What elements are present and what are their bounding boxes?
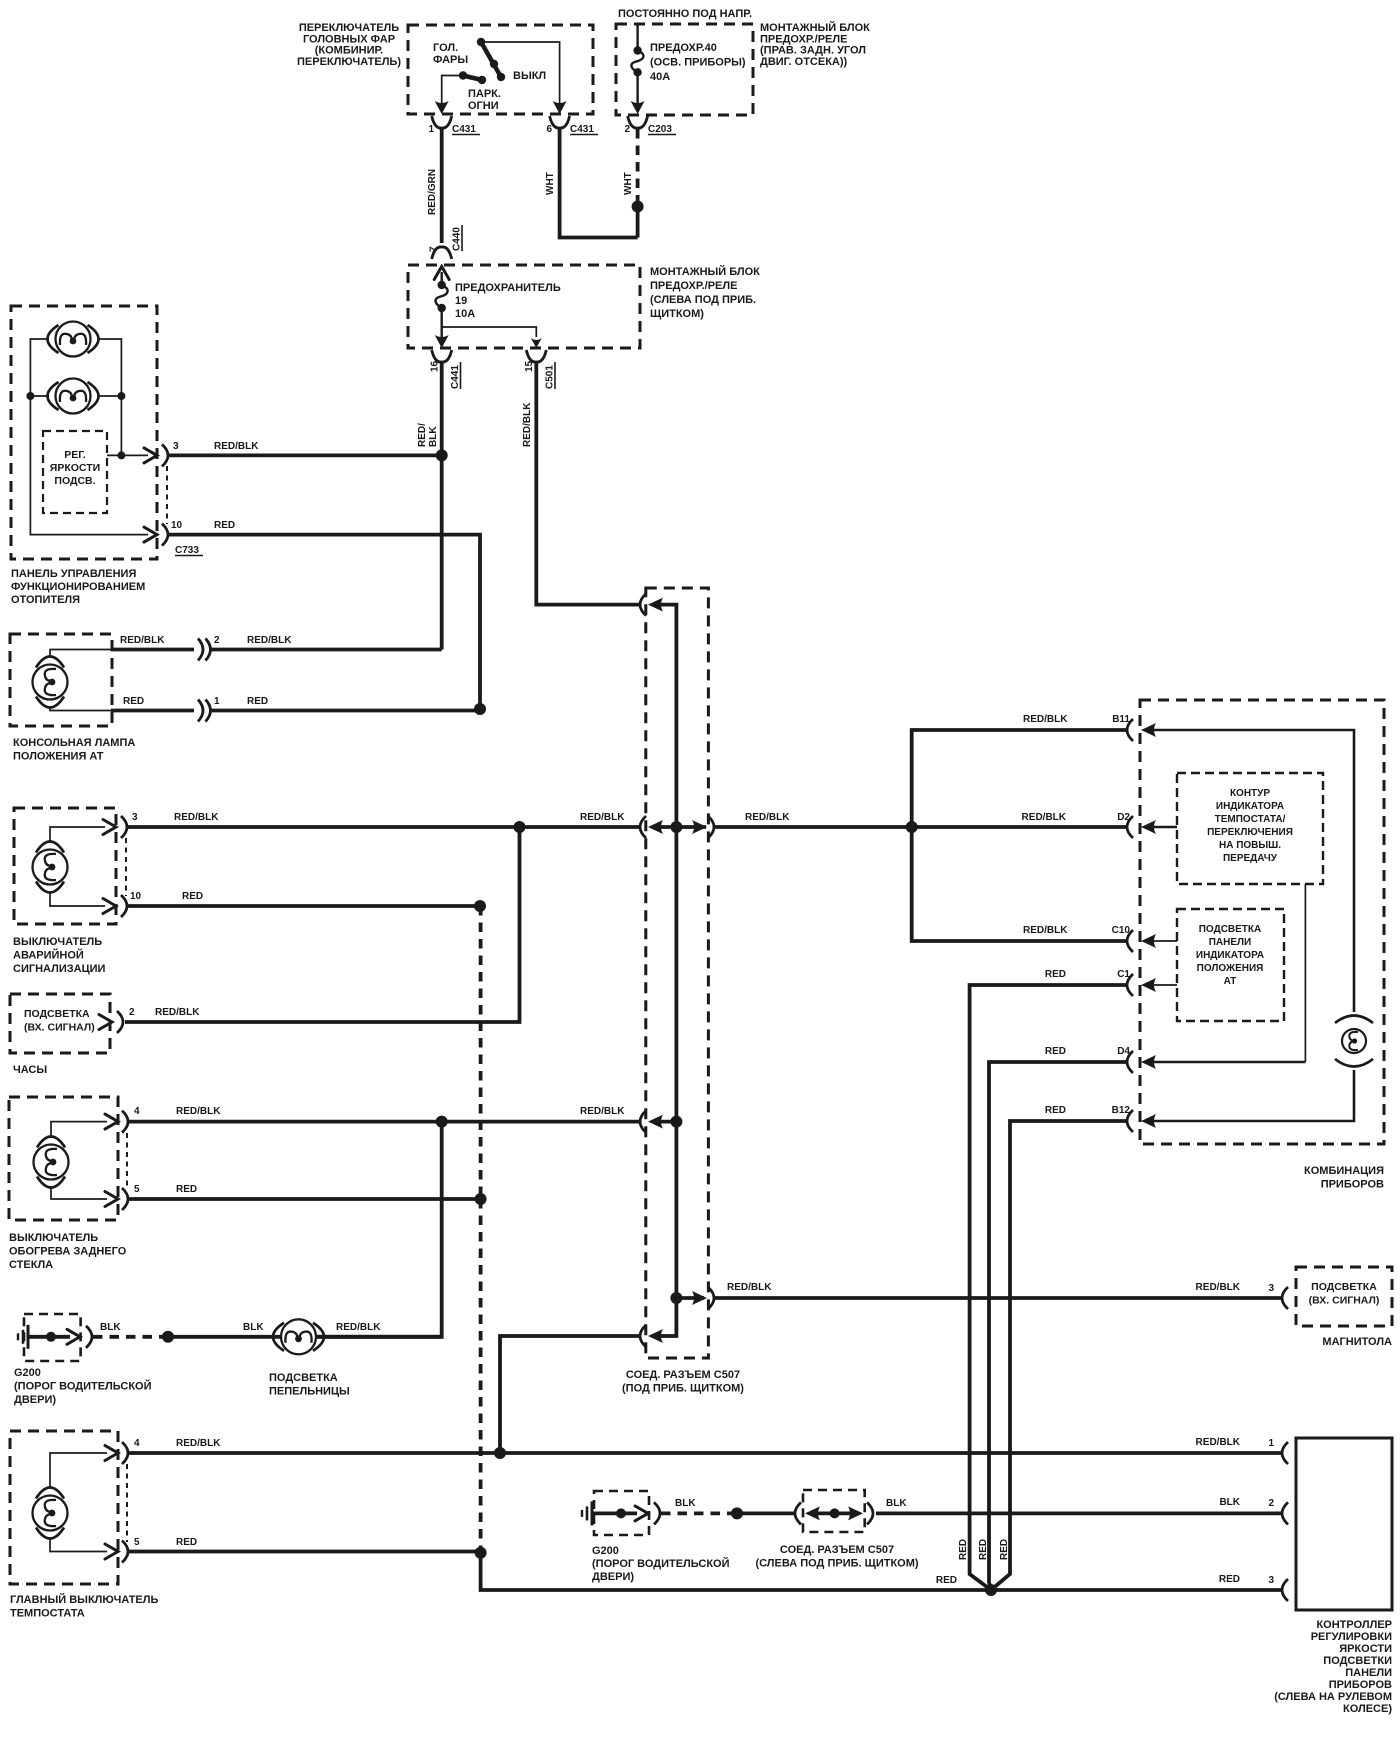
svg-text:СОЕД. РАЗЪЕМ С507: СОЕД. РАЗЪЕМ С507 [780,1544,894,1556]
hazard pin 10 connector [121,895,127,917]
svg-text:RED/BLK: RED/BLK [174,812,219,823]
heater panel illumination lamp 1 [48,322,99,357]
hazard switch internal wiring [50,827,105,842]
svg-text:BLK: BLK [886,1498,907,1509]
svg-text:ФАРЫ: ФАРЫ [433,54,468,66]
wire RED/BLK defogger pin 4 to C507 [129,1120,641,1124]
svg-text:40А: 40А [650,71,670,83]
svg-text:ГОЛОВНЫХ ФАР: ГОЛОВНЫХ ФАР [303,33,395,45]
tempostat pin 5 connector [122,1541,128,1563]
svg-text:RED/BLK: RED/BLK [1023,714,1068,725]
svg-text:(ПРАВ. ЗАДН. УГОЛ: (ПРАВ. ЗАДН. УГОЛ [760,45,866,57]
svg-text:4: 4 [134,1438,140,1449]
wire BLK dashed to splice (bottom) [661,1512,734,1516]
wire BLK splice to C507 bottom connector [737,1512,795,1516]
svg-text:RED: RED [247,696,268,707]
cluster internal wire C10 to AT panel light box [1150,940,1177,942]
G200 left exit connector [86,1326,92,1348]
svg-text:КОЛЕСЕ): КОЛЕСЕ) [1343,1703,1392,1715]
svg-text:1: 1 [428,124,434,135]
heater pin 10 connector [144,527,157,542]
wire RED/BLK hazard pin 3 to cluster D2 (main RED/BLK net) [127,825,641,829]
svg-text:(ВХ. СИГНАЛ): (ВХ. СИГНАЛ) [24,1022,95,1034]
joint connector C507 box (under instrument panel) [646,588,709,1358]
svg-text:ПРИБОРОВ: ПРИБОРОВ [1321,1179,1384,1191]
svg-text:ДВИГ. ОТСЕКА)): ДВИГ. ОТСЕКА)) [760,56,848,68]
console AT-position lamp box [10,634,112,726]
svg-text:(СЛЕВА НА РУЛЕВОМ: (СЛЕВА НА РУЛЕВОМ [1274,1691,1392,1703]
wire: fuse branch to pin 15 [442,327,537,337]
wire WHT from pin 6 C431 [560,129,638,238]
svg-text:ДВЕРИ): ДВЕРИ) [14,1394,56,1406]
wire RED/BLK from C501-15 to C507 top [536,363,640,605]
console AT-position lamp [33,657,68,708]
wire RED to C1 [970,985,1127,1590]
svg-text:RED: RED [1045,1046,1066,1057]
svg-text:МОНТАЖНЫЙ БЛОК: МОНТАЖНЫЙ БЛОК [760,21,870,34]
svg-text:RED/BLK: RED/BLK [336,1322,381,1333]
clock illumination box (ПОДСВЕТКА ВХ. СИГНАЛ) [10,994,110,1053]
svg-text:RED/BLK: RED/BLK [1196,1437,1241,1448]
splice dot BLK bottom [731,1507,743,1519]
svg-text:RED/BLK: RED/BLK [1196,1282,1241,1293]
svg-text:WHT: WHT [623,172,634,195]
svg-text:ПОДСВЕТКА: ПОДСВЕТКА [1311,1281,1377,1293]
splice dot WHT [632,201,644,213]
svg-text:(ВХ. СИГНАЛ): (ВХ. СИГНАЛ) [1309,1295,1380,1307]
svg-text:C203: C203 [648,124,672,135]
svg-text:RED/BLK: RED/BLK [176,1438,221,1449]
C507 magnitola exit connector [676,1296,704,1300]
inline connector pin 1 (console) [198,700,203,722]
svg-text:16: 16 [430,360,441,372]
svg-text:ПОСТОЯННО ПОД НАПР.: ПОСТОЯННО ПОД НАПР. [618,8,752,20]
svg-text:1: 1 [1268,1438,1274,1449]
AT position indicator panel light box [1177,909,1284,1021]
wire RED/BLK clock to hazard net [125,827,520,1022]
svg-text:КОНТРОЛЛЕР: КОНТРОЛЛЕР [1316,1619,1392,1631]
svg-text:ПАРК.: ПАРК. [468,88,501,100]
svg-text:ПЕРЕКЛЮЧЕНИЯ: ПЕРЕКЛЮЧЕНИЯ [1207,827,1293,838]
wire RED defogger pin 5 to RED distribution [129,1197,478,1201]
fuse ПРЕДОХР.40 (ОСВ. ПРИБОРЫ) 40А [636,24,638,47]
svg-text:2: 2 [624,124,630,135]
svg-text:(КОМБИНИР.: (КОМБИНИР. [315,45,384,57]
junction dot heater pin3 / C441 wire [436,449,448,461]
headlight switch wiper blade [481,42,501,77]
radio illumination box (ПОДСВЕТКА ВХ. СИГНАЛ) [1296,1267,1392,1326]
svg-text:RED/BLK: RED/BLK [727,1282,772,1293]
junction dot C507 at hazard line [670,821,682,833]
svg-text:RED/BLK: RED/BLK [1023,925,1068,936]
svg-text:5: 5 [134,1537,140,1548]
controller box (brightness controller) [1296,1438,1392,1610]
svg-text:(СЛЕВА ПОД ПРИБ. ЩИТКОМ): (СЛЕВА ПОД ПРИБ. ЩИТКОМ) [755,1558,918,1570]
wire RED/BLK ashtray lamp to corner [316,1335,442,1339]
svg-text:СТЕКЛА: СТЕКЛА [9,1259,53,1271]
defogger pin 4 connector [122,1111,128,1133]
svg-text:(ОСВ. ПРИБОРЫ): (ОСВ. ПРИБОРЫ) [650,57,746,69]
svg-text:ВЫКЛЮЧАТЕЛЬ: ВЫКЛЮЧАТЕЛЬ [9,1232,98,1244]
heater control panel box [11,306,157,559]
wire RED heater pin 10 to distribution [168,535,480,709]
svg-text:15: 15 [524,360,535,372]
svg-text:ПАНЕЛЬ УПРАВЛЕНИЯ: ПАНЕЛЬ УПРАВЛЕНИЯ [11,568,136,580]
cluster internal wire D4 to indicator box [1150,1061,1305,1064]
svg-text:2: 2 [1268,1498,1274,1509]
svg-text:ПЕРЕДАЧУ: ПЕРЕДАЧУ [1223,853,1278,864]
svg-text:ВЫКЛЮЧАТЕЛЬ: ВЫКЛЮЧАТЕЛЬ [13,936,102,948]
junction dot defogger RED [475,1193,487,1205]
svg-text:ИНДИКАТОРА: ИНДИКАТОРА [1216,801,1284,812]
ground G200 (driver door sill) left [27,1325,30,1349]
svg-text:РЕГУЛИРОВКИ: РЕГУЛИРОВКИ [1311,1631,1392,1643]
svg-text:G200: G200 [14,1367,41,1379]
tempostat pin 4 connector [122,1442,128,1464]
wire RED distribution (dashed) from hazard junction to temp junction [479,906,483,1199]
wire RED to B12 [991,1121,1127,1590]
svg-text:RED: RED [936,1575,957,1586]
joint connector C507 box (left under instrument panel) [795,1502,801,1524]
junction dot RED merge [985,1584,997,1596]
wire RED/BLK from C441-16 down to console corner [440,363,444,650]
svg-text:ПОДСВЕТКА: ПОДСВЕТКА [269,1372,338,1384]
C507 defogger entry connector [640,1111,646,1133]
junction dot C507 at defogger entry [670,1116,682,1128]
cluster internal wire D2 to thermostat indicator box [1150,826,1177,829]
console lamp internal wiring [50,650,111,658]
heater pin 3 connector [162,444,168,466]
svg-text:RED: RED [978,1539,989,1560]
svg-text:RED: RED [214,520,235,531]
svg-text:ПЕРЕКЛЮЧАТЕЛЬ: ПЕРЕКЛЮЧАТЕЛЬ [299,22,399,34]
svg-text:10А: 10А [455,308,475,320]
svg-text:4: 4 [134,1106,140,1117]
wire BLK splice to ashtray lamp [168,1335,281,1339]
svg-text:1: 1 [214,696,220,707]
wire: park contact to pin 1 [442,76,463,104]
wire RED tempostat pin 5 to junction [129,1550,478,1554]
svg-text:RED: RED [176,1184,197,1195]
wire RED to long bottom run [481,1553,991,1590]
inline connector pin 2 (console) [198,639,203,661]
svg-text:ПОДСВ.: ПОДСВ. [54,475,95,487]
ashtray illumination lamp (ПОДСВЕТКА ПЕПЕЛЬНИЦЫ) [273,1319,324,1354]
svg-text:RED/BLK: RED/BLK [580,812,625,823]
svg-text:(ПОРОГ ВОДИТЕЛЬСКОЙ: (ПОРОГ ВОДИТЕЛЬСКОЙ [14,1380,152,1393]
svg-text:RED/BLK: RED/BLK [120,635,165,646]
svg-text:ЧАСЫ: ЧАСЫ [13,1064,47,1076]
svg-text:ТЕМПОСТАТА/: ТЕМПОСТАТА/ [1215,814,1286,825]
svg-text:RED/GRN: RED/GRN [427,169,438,215]
defogger pin 5 connector [122,1188,128,1210]
svg-text:ПОЛОЖЕНИЯ АТ: ПОЛОЖЕНИЯ АТ [13,751,104,763]
svg-text:RED/BLK: RED/BLK [580,1106,625,1117]
svg-text:ПРИБОРОВ: ПРИБОРОВ [1329,1679,1392,1691]
svg-text:ПАНЕЛИ: ПАНЕЛИ [1345,1667,1392,1679]
wire: regulator to heater pin 3 [107,454,148,456]
svg-text:C733: C733 [175,545,199,556]
svg-text:(СЛЕВА ПОД ПРИБ.: (СЛЕВА ПОД ПРИБ. [650,294,756,306]
svg-text:RED/BLK: RED/BLK [522,402,533,447]
junction dot tempostat RED/BLK branch [494,1447,506,1459]
svg-text:C441: C441 [450,365,461,389]
connector C441 pin 16 [432,350,452,362]
fuse/relay box (engine compartment) [616,24,753,115]
svg-text:ЩИТКОМ): ЩИТКОМ) [650,308,704,320]
svg-text:6: 6 [546,124,552,135]
C507 mid entry connector (hazard RED/BLK) [640,816,646,838]
svg-text:3: 3 [132,812,138,823]
svg-text:3: 3 [1268,1575,1274,1586]
wire RED/BLK C507 to magnitola [714,1296,1283,1300]
svg-text:АТ: АТ [1224,976,1237,987]
wire RED merge to controller pin 3 [991,1588,1283,1592]
svg-text:10: 10 [171,520,183,531]
junction dot C507 at magnitola exit [670,1292,682,1304]
wire RED/BLK branch up to C507 bottom entry [500,1336,641,1453]
tempostat switch illumination lamp [33,1488,68,1539]
svg-text:ДВЕРИ): ДВЕРИ) [592,1571,634,1583]
svg-text:ТЕМПОСТАТА: ТЕМПОСТАТА [10,1608,85,1620]
svg-text:WHT: WHT [545,172,556,195]
wire BLK dashed to splice [93,1335,165,1339]
connector C501 pin 15 [526,350,546,362]
tempostat master switch box [10,1431,118,1584]
svg-text:МАГНИТОЛА: МАГНИТОЛА [1322,1336,1392,1348]
cluster pin D2 [1127,816,1133,838]
wire RED/GRN pin1 C431 to pin7 C440 [440,129,444,243]
svg-text:RED/: RED/ [417,423,428,447]
connector C203 pin 2 [628,116,648,128]
svg-text:ПЕПЕЛЬНИЦЫ: ПЕПЕЛЬНИЦЫ [269,1386,350,1398]
svg-text:C431: C431 [570,124,594,135]
svg-text:RED/BLK: RED/BLK [247,635,292,646]
svg-text:МОНТАЖНЫЙ БЛОК: МОНТАЖНЫЙ БЛОК [650,265,760,278]
svg-text:ВЫКЛ: ВЫКЛ [513,70,546,82]
svg-text:3: 3 [173,441,179,452]
headlight switch park-lights blade [463,76,482,81]
svg-text:G200: G200 [592,1545,619,1557]
svg-text:ОТОПИТЕЛЯ: ОТОПИТЕЛЯ [11,594,80,606]
junction dot tempostat RED [475,1547,487,1559]
svg-text:СИГНАЛИЗАЦИИ: СИГНАЛИЗАЦИИ [13,963,106,975]
cluster internal wire B11 to lamp [1150,730,1354,1012]
rear window defogger switch box [9,1097,118,1220]
svg-text:RED: RED [176,1537,197,1548]
svg-text:ПОДСВЕТКА: ПОДСВЕТКА [1199,924,1262,935]
svg-text:ПОЛОЖЕНИЯ: ПОЛОЖЕНИЯ [1197,963,1264,974]
svg-text:RED: RED [182,891,203,902]
svg-text:BLK: BLK [428,426,439,447]
C507 mid exit connector (RED/BLK to cluster) [692,820,707,834]
cluster internal wire C1 to AT panel light box [1150,984,1177,986]
svg-text:BLK: BLK [100,1322,121,1333]
svg-text:ПРЕДОХР./РЕЛЕ: ПРЕДОХР./РЕЛЕ [650,280,737,292]
heater panel internal bus wiring [30,339,148,535]
svg-text:RED/BLK: RED/BLK [745,812,790,823]
wire WHT from pin 2 C203 (dashed) [636,129,640,203]
svg-text:ФУНКЦИОНИРОВАНИЕМ: ФУНКЦИОНИРОВАНИЕМ [11,581,145,593]
junction dot defogger RED/BLK branch [436,1116,448,1128]
svg-text:КОНТУР: КОНТУР [1230,788,1270,799]
clock pin 2 connector [99,1015,112,1030]
junction dot clock branch [514,821,526,833]
thermostat/overdrive indicator circuit box [1177,773,1323,884]
fuse ПРЕДОХРАНИТЕЛЬ 19 10А [441,272,443,281]
svg-text:КОМБИНАЦИЯ: КОМБИНАЦИЯ [1304,1165,1384,1177]
hazard switch illumination lamp [33,842,68,893]
svg-text:ПАНЕЛИ: ПАНЕЛИ [1209,937,1252,948]
svg-text:RED: RED [999,1539,1010,1560]
svg-text:BLK: BLK [675,1498,696,1509]
svg-text:ПОДСВЕТКА: ПОДСВЕТКА [24,1008,90,1020]
wire RED/BLK branch up to B11 [912,730,1127,827]
svg-text:АВАРИЙНОЙ: АВАРИЙНОЙ [13,949,84,962]
wire RED/BLK from defogger junction down to ashtray lamp [316,1122,442,1337]
svg-text:КОНСОЛЬНАЯ ЛАМПА: КОНСОЛЬНАЯ ЛАМПА [13,737,135,749]
wire RED hazard pin 10 to junction [127,904,480,908]
ground G200 (driver door sill) bottom [591,1501,594,1525]
svg-text:2: 2 [129,1007,135,1018]
wire RED/BLK tempostat pin 4 to controller pin 1 [129,1451,1283,1455]
svg-text:RED: RED [1219,1574,1240,1585]
svg-text:ПРЕДОХР./РЕЛЕ: ПРЕДОХР./РЕЛЕ [760,33,847,45]
svg-text:ОБОГРЕВА ЗАДНЕГО: ОБОГРЕВА ЗАДНЕГО [9,1246,127,1258]
svg-text:2: 2 [214,635,220,646]
svg-text:RED/BLK: RED/BLK [176,1106,221,1117]
svg-text:RED/BLK: RED/BLK [214,441,259,452]
cluster illumination lamp [1335,1016,1373,1067]
svg-text:ПЕРЕКЛЮЧАТЕЛЬ): ПЕРЕКЛЮЧАТЕЛЬ) [297,56,401,68]
hazard warning switch box [14,808,116,924]
svg-text:ГОЛ.: ГОЛ. [433,42,458,54]
defogger switch internal wiring [51,1122,107,1137]
svg-text:ЯРКОСТИ: ЯРКОСТИ [1339,1643,1392,1655]
svg-text:ОГНИ: ОГНИ [468,100,499,112]
svg-text:RED: RED [958,1539,969,1560]
svg-text:RED/BLK: RED/BLK [155,1007,200,1018]
C507 internal bus wire [656,605,676,1336]
svg-text:19: 19 [455,295,467,307]
wire RED/BLK console pin 2 to C441 wire corner [111,648,194,652]
G200 connector box left [24,1314,81,1361]
svg-text:BLK: BLK [243,1322,264,1333]
heater panel illumination lamp 2 [48,379,99,414]
svg-text:7: 7 [429,246,440,252]
C507 top entry connector (RED/BLK from C501) [640,594,646,616]
svg-text:10: 10 [130,891,142,902]
wire RED console pin 1 to junction [111,709,194,713]
svg-text:RED/BLK: RED/BLK [1022,812,1067,823]
svg-text:ЯРКОСТИ: ЯРКОСТИ [50,462,100,474]
G200 bottom exit connector [654,1502,660,1524]
svg-text:5: 5 [134,1184,140,1195]
svg-text:3: 3 [1268,1283,1274,1294]
svg-text:(ПОРОГ ВОДИТЕЛЬСКОЙ: (ПОРОГ ВОДИТЕЛЬСКОЙ [592,1557,730,1570]
svg-text:C431: C431 [452,124,476,135]
cluster internal wire B12 to lamp [1150,1070,1354,1121]
svg-text:C501: C501 [545,365,556,389]
brightness regulator box (РЕГ. ЯРКОСТИ ПОДСВ.) [43,431,107,513]
svg-text:ГЛАВНЫЙ ВЫКЛЮЧАТЕЛЬ: ГЛАВНЫЙ ВЫКЛЮЧАТЕЛЬ [10,1593,158,1606]
C507 bottom entry connector (tempostat RED/BLK) [640,1325,646,1347]
wire RED/BLK heater pin 3 to C441 wire [168,453,442,457]
svg-text:СОЕД. РАЗЪЕМ С507: СОЕД. РАЗЪЕМ С507 [626,1369,740,1381]
tempostat switch internal wiring [50,1453,107,1488]
connector C440 pin 7 [432,247,452,259]
hazard pin 3 connector [121,816,127,838]
svg-text:RED: RED [123,696,144,707]
headlight combination switch box [408,25,593,114]
junction dot console RED [474,703,486,715]
splice dot BLK ashtray [162,1331,174,1343]
svg-text:(ПОД ПРИБ. ЩИТКОМ): (ПОД ПРИБ. ЩИТКОМ) [622,1383,744,1395]
wire BLK C507 to controller pin 2 [876,1512,1283,1516]
junction dot cluster branch [906,821,918,833]
svg-text:RED: RED [1045,969,1066,980]
G200 connector box bottom [594,1491,649,1535]
under-dash fuse/relay box [408,265,640,348]
junction dot hazard RED [474,900,486,912]
svg-text:ИНДИКАТОРА: ИНДИКАТОРА [1196,950,1264,961]
svg-text:BLK: BLK [1219,1497,1240,1508]
svg-text:ПРЕДОХРАНИТЕЛЬ: ПРЕДОХРАНИТЕЛЬ [455,282,561,294]
connector C431 pin 1 [432,116,452,128]
svg-text:RED: RED [1045,1105,1066,1116]
svg-text:C440: C440 [452,227,463,251]
wire: switch pivot to pin 6 [481,42,560,103]
svg-text:НА ПОВЫШ.: НА ПОВЫШ. [1219,840,1281,851]
connector C431 pin 6 [550,116,570,128]
defogger switch illumination lamp [34,1137,69,1188]
svg-text:ПОДСВЕТКИ: ПОДСВЕТКИ [1323,1655,1392,1667]
svg-text:РЕГ.: РЕГ. [64,449,86,461]
instrument cluster box (КОМБИНАЦИЯ ПРИБОРОВ) [1140,700,1384,1144]
wire RED/BLK branch down to C10 [912,827,1127,941]
svg-text:ПРЕДОХР.40: ПРЕДОХР.40 [650,42,717,54]
wire RED/BLK C507 to cluster branch point [714,825,1127,829]
wire RED to D4 [989,1062,1127,1590]
